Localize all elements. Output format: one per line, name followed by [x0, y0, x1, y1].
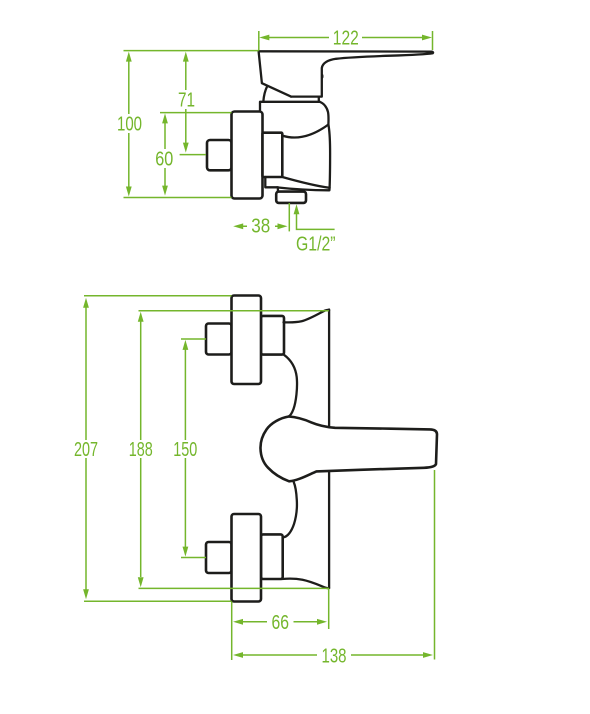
svg-text:188: 188 — [129, 439, 153, 461]
svg-text:71: 71 — [178, 90, 195, 112]
svg-text:138: 138 — [322, 645, 347, 667]
svg-text:150: 150 — [173, 439, 197, 461]
svg-text:122: 122 — [333, 28, 359, 50]
svg-text:38: 38 — [251, 215, 270, 237]
svg-text:207: 207 — [74, 439, 98, 461]
svg-text:60: 60 — [155, 149, 173, 171]
svg-text:100: 100 — [117, 114, 142, 136]
svg-text:G1/2”: G1/2” — [296, 234, 336, 256]
svg-text:66: 66 — [272, 612, 290, 634]
